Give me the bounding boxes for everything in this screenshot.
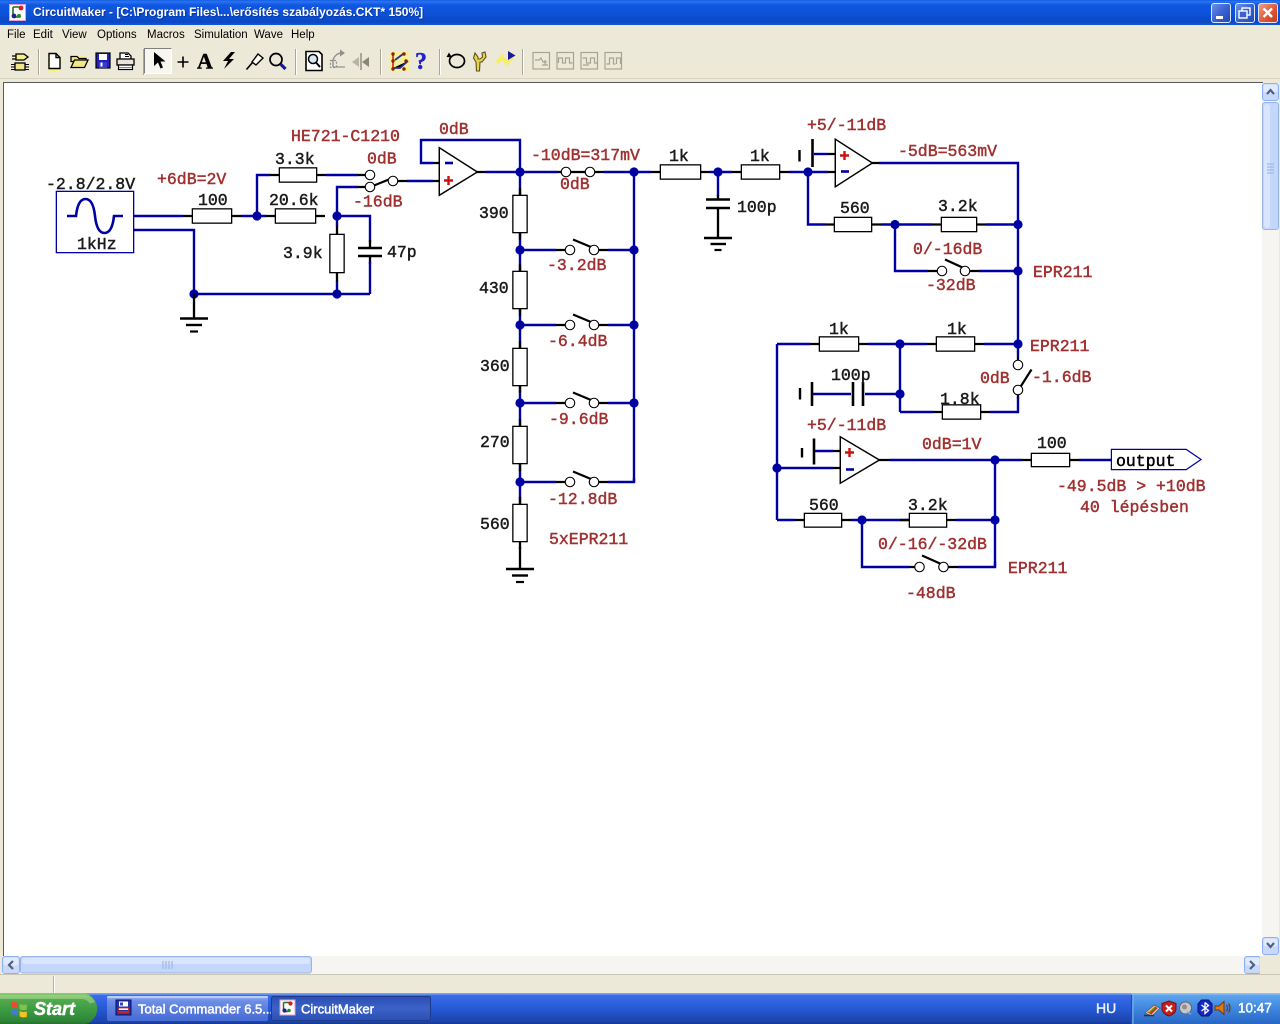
junction on ground bus below R4 [332, 289, 341, 298]
resistor R15 1k [927, 338, 984, 351]
power symbol at U3 +in [802, 439, 833, 465]
wire R13 to right rail [986, 223, 1018, 225]
wire R12 to R13 [881, 223, 932, 225]
label 0/-16/-32dB of S5 [878, 535, 987, 554]
label 100 of R1 [198, 191, 228, 210]
wire S2 to 1k [604, 171, 651, 173]
wire S4 to R16 [990, 397, 1018, 412]
label 100 of R17 [1037, 434, 1067, 453]
label EPR211 second [1030, 337, 1090, 356]
wire 3.3k to switch S1 top throw [326, 174, 358, 176]
resistor R18 560 [795, 514, 851, 527]
switch S1 HE721 relay [358, 171, 407, 191]
node A junction [252, 211, 261, 220]
switch S6 -3.2dB [556, 240, 608, 255]
label 1k of R10 [669, 147, 689, 166]
resistor R7 360 [514, 341, 527, 393]
wire R11 to U2 -in node [789, 171, 828, 173]
wire node A to 20.6k [241, 215, 266, 217]
resistor R4 3.9k vertical [331, 225, 344, 282]
capacitor C2 100p [706, 172, 730, 238]
feedback wire of U1 [421, 140, 520, 172]
wire R14 to R15 [868, 343, 927, 345]
junction right rail -9.6dB [629, 398, 638, 407]
junction U3 output node [990, 455, 999, 464]
label 3.9k of R4 [283, 244, 323, 263]
junction right rail -3.2dB [629, 245, 638, 254]
ground symbol G2 ladder [506, 547, 534, 582]
label 360 of R7 [480, 357, 510, 376]
resistor R1 100 [183, 210, 241, 223]
power symbol at C3 [800, 382, 851, 406]
junction left rail -9.6dB [515, 398, 524, 407]
resistor R2 3.3k [270, 169, 326, 182]
row -3.2dB wire left [520, 249, 556, 251]
svg-text:CircuitMaker: CircuitMaker [301, 1002, 375, 1017]
junction cap node block2 [895, 389, 904, 398]
wire S3 to right rail [979, 270, 1018, 272]
switch S5 0/-16/-32dB [909, 556, 958, 572]
ground symbol G3 under C2 [704, 238, 732, 250]
wire U3 out to R17 [995, 459, 1022, 461]
junction right rail at S3 [1013, 266, 1022, 275]
label -49.5dB > +10dB [1057, 477, 1206, 496]
label 100p of C2 [737, 198, 777, 217]
switch S7 -6.4dB [556, 315, 608, 330]
junction ladder top right rail [629, 167, 638, 176]
row -6.4dB wire left [520, 324, 556, 326]
horizontal scrollbar [2, 956, 1260, 974]
resistor R19 3.2k [900, 514, 956, 527]
junction U1 output to ladder [515, 167, 524, 176]
wire output rail down [994, 460, 996, 567]
junction on ground bus below source [189, 289, 198, 298]
wire R17 to output flag [1079, 459, 1112, 461]
svg-text:A: A [197, 49, 213, 74]
label 430 of R6 [479, 279, 509, 298]
switch S4 0dB/-1.6dB vertical [1014, 344, 1032, 399]
taskbar [0, 993, 1280, 1024]
label -5dB=563mV [898, 142, 997, 161]
junction right rail block2 [1013, 339, 1022, 348]
label -48dB of S5 [906, 584, 956, 603]
row -3.2dB wire right [608, 249, 634, 251]
label -2.8/2.8V of V1 [46, 175, 135, 194]
resistor R11 1k [732, 166, 789, 179]
row -9.6dB wire right [608, 402, 634, 404]
label 20.6k of R3 [269, 191, 319, 210]
row -12.8dB wire right [608, 478, 634, 482]
resistor R6 430 [514, 264, 527, 316]
label 3.2k of R19 [908, 496, 948, 515]
wire to switch S5 [862, 520, 909, 567]
wire node B to switch S1 bottom throw [337, 187, 358, 216]
label -16dB of S1 [353, 193, 403, 212]
resistor R16 1.8k [933, 406, 990, 419]
junction left rail at U3 [772, 463, 781, 472]
switch S8 -9.6dB [556, 393, 608, 408]
signal source V1 box [57, 192, 133, 252]
label 390 of R5 [479, 204, 509, 223]
vertical scrollbar [1262, 83, 1279, 955]
resistor R12 560 [825, 218, 881, 231]
label 0dB of S4 [980, 369, 1010, 388]
wire left rail to R18 [777, 519, 795, 521]
menu bar [0, 25, 1280, 46]
label EPR211 first [1033, 263, 1093, 282]
row -12.8dB wire left [520, 481, 556, 483]
label -12.8dB [548, 490, 617, 509]
label 5xEPR211 [549, 530, 628, 549]
wire U3 output [890, 459, 995, 461]
label 0dB of S1 [367, 150, 397, 169]
label -3.2dB [547, 256, 607, 275]
resistor R13 3.2k [932, 218, 986, 231]
label 0dB feedback of U1 [439, 120, 469, 139]
row -9.6dB wire left [520, 402, 556, 404]
junction output rail at R19 [990, 515, 999, 524]
svg-text:Start: Start [34, 999, 76, 1019]
label EPR211 third [1008, 559, 1068, 578]
label 560 of R18 [809, 496, 839, 515]
switch S3 0/-16dB [928, 260, 979, 276]
power symbol at U2 +in [800, 139, 829, 167]
wire S1 common to op-amp U1 +in [407, 180, 433, 182]
junction mid node block2 [895, 339, 904, 348]
wire node B down to R4 [336, 216, 338, 226]
capacitor C3 100p [853, 382, 897, 406]
ladder right rail wire [633, 172, 635, 482]
junction U2 -in node [803, 167, 812, 176]
label 47p of C1 [387, 243, 417, 262]
label -6.4dB [548, 332, 608, 351]
toolbar [0, 46, 1280, 79]
label 0dB of S2 [560, 175, 590, 194]
label +5/-11dB of U2 [807, 116, 886, 135]
wire S5 to output rail [958, 562, 995, 567]
label 100p of C3 [831, 366, 871, 385]
title bar [0, 0, 1280, 25]
label 0dB=1V [922, 435, 982, 454]
label +6dB=2V [157, 170, 226, 189]
resistor R10 1k [651, 166, 710, 179]
wire to R14 [777, 343, 810, 345]
wire R16 to mid rail [900, 411, 933, 413]
capacitor C1 47p [358, 240, 382, 264]
wire node B to capacitor C1 branch [337, 216, 370, 242]
resistor R5 390 [514, 188, 527, 240]
op-amp U1 [433, 149, 486, 194]
wire U2 output down right rail [879, 163, 1018, 348]
svg-text:10:47: 10:47 [1238, 1001, 1272, 1016]
svg-text:?: ? [415, 49, 427, 75]
label 560 of R9 [480, 515, 510, 534]
wire R15 to right rail [984, 343, 1018, 345]
label -1.6dB of S4 [1032, 368, 1092, 387]
label -10dB=317mV [531, 146, 640, 165]
label 1k of R14 [829, 320, 849, 339]
wire from source top output [133, 215, 183, 217]
svg-text:HU: HU [1096, 1000, 1116, 1016]
wire from source bottom to ground rail [133, 230, 194, 294]
wire ground bus bottom [194, 293, 370, 295]
switch S9 -12.8dB [556, 472, 608, 487]
label 0/-16dB of S3 [913, 240, 982, 259]
junction left rail -6.4dB [515, 320, 524, 329]
label HE721-C1210 [291, 127, 400, 146]
resistor R17 100 [1022, 454, 1079, 466]
wire to switch S3 [895, 225, 928, 272]
label +5/-11dB of U3 [807, 416, 886, 435]
status bar [0, 974, 1280, 994]
wire R10 to R11 [710, 171, 732, 173]
svg-text:Total Commander 6.5...: Total Commander 6.5... [138, 1002, 273, 1017]
junction left rail -3.2dB [515, 245, 524, 254]
junction right rail at R13 [1013, 220, 1022, 229]
label 3.3k of R2 [275, 150, 315, 169]
node B junction [332, 211, 341, 220]
output flag terminal [1112, 450, 1200, 471]
junction right rail -6.4dB [629, 320, 638, 329]
label 1kHz of V1 [77, 235, 117, 254]
label 3.2k of R13 [938, 197, 978, 216]
junction 100p node [713, 167, 722, 176]
wire U2 feedback down [808, 172, 825, 225]
wire left rail to U3 -in [777, 467, 833, 469]
wire mid rail down [899, 344, 901, 412]
junction feedback node U2 [890, 220, 899, 229]
wire R19 to output rail [956, 519, 995, 521]
label -9.6dB [549, 410, 609, 429]
junction left rail -12.8dB [515, 477, 524, 486]
resistor R8 270 [514, 419, 527, 471]
ladder left rail wire [519, 172, 521, 541]
wire U1 output [486, 171, 558, 173]
switch S2 0dB closed [558, 168, 604, 176]
label 560 of R12 [840, 199, 870, 218]
wire C1 to ground bus [369, 262, 371, 294]
label 1.8k of R16 [940, 390, 980, 409]
resistor R9 560 [514, 497, 527, 549]
wire node A to 3.3k branch [257, 175, 270, 216]
ground symbol G1 [180, 294, 208, 332]
label 1k of R11 [750, 147, 770, 166]
label 270 of R8 [480, 433, 510, 452]
op-amp U3 [833, 438, 890, 482]
label -32dB of S3 [926, 276, 976, 295]
resistor R14 1k [810, 338, 868, 351]
resistor R3 20.6k [266, 210, 325, 223]
wire R18 to R19 [851, 519, 910, 521]
left rail wire block2 [776, 344, 778, 520]
wire R4 to ground bus [336, 281, 338, 294]
junction feedback node U3 [857, 515, 866, 524]
label 40 lepesben [1080, 498, 1189, 517]
op-amp U2 [828, 141, 879, 186]
label 1k of R15 [947, 320, 967, 339]
row -6.4dB wire right [608, 324, 634, 326]
